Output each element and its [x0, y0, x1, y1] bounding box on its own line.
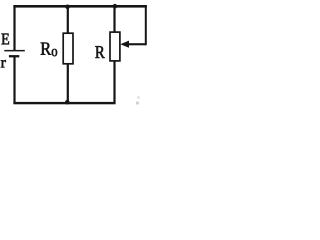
wire rheostat branch bottom	[113, 60, 115, 103]
junction node: top R0	[65, 5, 70, 10]
battery E short thick plate	[9, 55, 19, 57]
wire wiper horizontal	[128, 43, 147, 45]
wire left upper (battery top lead)	[13, 5, 15, 50]
wire R0 branch bottom	[67, 63, 69, 103]
wire R0 branch top	[67, 6, 69, 35]
wire right (wiper lead vertical)	[145, 5, 147, 45]
wire left lower (battery bottom lead)	[13, 56, 15, 104]
rheostat R body	[110, 32, 120, 61]
label R0 subscript 0	[52, 49, 57, 56]
label R (rheostat)	[95, 46, 104, 58]
resistor R0 body	[63, 33, 73, 64]
battery E long plate	[4, 50, 25, 52]
junction node: top rheostat	[113, 4, 118, 9]
wiper arrowhead	[120, 41, 129, 48]
paper smudge 2	[136, 101, 139, 104]
wire top	[13, 5, 146, 8]
wire bottom	[13, 102, 115, 104]
label r (internal resistance)	[1, 60, 6, 67]
label E (emf)	[2, 34, 10, 45]
junction node: bottom R0	[65, 100, 70, 105]
label R0 letter R	[41, 43, 51, 55]
paper smudge 1	[137, 96, 140, 99]
wire rheostat branch top	[113, 6, 115, 34]
